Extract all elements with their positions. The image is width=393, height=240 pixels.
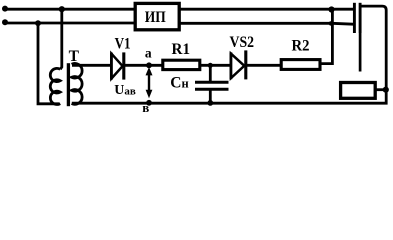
node junction rail2 primary return	[35, 20, 41, 26]
transformer T primary winding	[50, 68, 60, 104]
node a junction	[146, 62, 152, 68]
resistor R2	[281, 60, 320, 70]
electrode tail from right plate down	[359, 33, 362, 72]
capacitor Cn junction top	[208, 63, 213, 68]
node junction load right	[383, 87, 389, 93]
thyristor VS2	[231, 50, 246, 79]
wire R1 to VS2	[200, 64, 231, 67]
capacitor output right plate	[359, 3, 362, 33]
capacitor Cn junction bottom	[207, 100, 213, 106]
node junction rail1 primary feed	[59, 6, 65, 12]
voltage arrow Uab double headed	[146, 67, 153, 98]
wire VS2 to R2	[246, 64, 281, 67]
svg-text:Uав: Uав	[114, 83, 136, 98]
wire rail1 right	[179, 8, 353, 11]
resistor R1	[163, 60, 200, 69]
terminal dot input 2	[2, 19, 8, 25]
wire load to right rail	[375, 88, 386, 91]
wire V1 to R1	[124, 64, 162, 67]
node junction rail2 cross	[329, 21, 333, 25]
svg-text:T: T	[69, 48, 80, 65]
wire rail2 right	[179, 22, 353, 26]
svg-text:Сн: Сн	[170, 74, 188, 91]
load resistor box	[341, 83, 376, 99]
wire top rail 1 left	[5, 8, 135, 11]
node junction rail1 right	[328, 6, 334, 12]
svg-text:в: в	[142, 100, 149, 115]
capacitor Cn bottom plate	[195, 88, 229, 91]
wire secondary to V1	[72, 64, 111, 67]
wire cap top to right corner and right edge down	[72, 6, 386, 103]
block IP box	[135, 3, 179, 29]
capacitor output left plate	[353, 3, 356, 33]
svg-text:R2: R2	[292, 38, 310, 55]
diode V1	[111, 52, 123, 79]
svg-text:R1: R1	[172, 41, 191, 58]
svg-text:ИП: ИП	[145, 9, 166, 26]
capacitor Cn bottom lead	[209, 91, 212, 104]
node b junction on bottom wire	[146, 100, 152, 106]
transformer T secondary winding	[72, 63, 83, 104]
svg-text:a: a	[145, 45, 152, 60]
wire R2 up to rail1	[320, 9, 332, 63]
terminal dot input 1	[2, 6, 8, 12]
transformer T core	[67, 63, 70, 106]
wire top rail 2 left	[5, 22, 135, 25]
svg-text:V1: V1	[115, 36, 131, 53]
wire primary return	[38, 23, 60, 104]
capacitor Cn top lead	[209, 65, 212, 81]
wire primary feed vertical	[60, 9, 62, 69]
svg-text:VS2: VS2	[230, 34, 255, 51]
capacitor Cn top plate	[195, 81, 229, 84]
